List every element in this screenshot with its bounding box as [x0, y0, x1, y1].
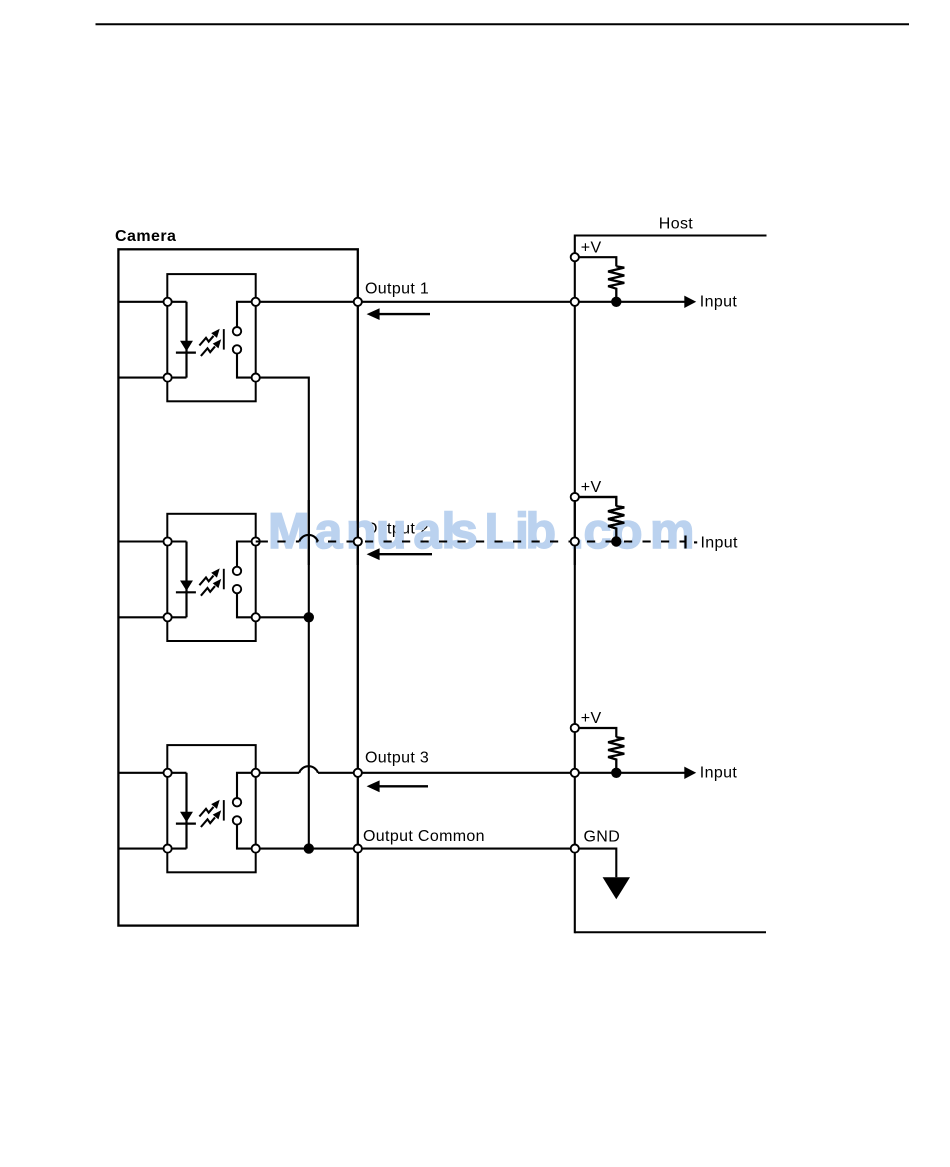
optocoupler U2 — [164, 514, 260, 641]
wire: output 3 hop to input arrow — [318, 772, 685, 774]
svg-text:Input: Input — [701, 535, 739, 552]
svg-text:Output Common: Output Common — [363, 828, 485, 845]
wire: output 3 opto3 to hop — [256, 772, 300, 774]
junction dot bus / output common — [304, 843, 314, 853]
host terminal output1 — [571, 298, 579, 306]
terminal circle camera edge output1 — [354, 298, 362, 306]
svg-text:+V: +V — [581, 239, 602, 256]
wire: camera left edge to opto1 cathode — [118, 377, 167, 379]
svg-text:+V: +V — [581, 479, 602, 496]
svg-text:Camera: Camera — [115, 228, 176, 245]
ground symbol — [603, 877, 630, 899]
output 2 dashed wire hop to end — [316, 540, 685, 542]
Camera enclosure box — [118, 249, 357, 925]
junction dot bus / opto2 — [304, 612, 314, 622]
top page rule — [96, 23, 910, 25]
host terminal output3 — [571, 769, 579, 777]
output 2 end tick — [684, 536, 686, 549]
common return bus: opto1 cathode down to output common — [256, 378, 309, 849]
+V terminal 1 — [571, 253, 579, 261]
wire: camera left edge to opto3 cathode — [118, 848, 167, 850]
wire: opto2 emitter to bus junction — [256, 616, 309, 618]
output 3 hop over bus — [299, 766, 318, 773]
+V terminal 2 — [571, 493, 579, 501]
output 2 hop over bus — [299, 535, 318, 542]
pull-up resistor R2 — [579, 497, 624, 542]
svg-text:Input: Input — [700, 293, 738, 310]
Host left edge — [574, 235, 576, 934]
wire: output 1 line opto1 to input arrow — [256, 301, 685, 303]
bus segment over watermark — [308, 500, 310, 565]
wire: camera left edge to opto2 anode — [118, 540, 167, 542]
terminal circle camera edge common — [354, 845, 362, 853]
svg-text:Host: Host — [659, 216, 694, 233]
svg-text:Output 3: Output 3 — [365, 750, 429, 767]
direction arrow output2 (left) — [367, 548, 432, 560]
input arrow 3 — [684, 767, 696, 779]
input arrow 1 — [684, 296, 696, 308]
output 2 end mini dash — [694, 541, 697, 543]
terminal circle camera edge output2 — [354, 537, 362, 545]
svg-text:Output 1: Output 1 — [365, 280, 429, 297]
Host bottom edge — [575, 931, 766, 933]
host terminal output2 — [571, 537, 579, 545]
output 2 wire redraw over watermark: opto2 to hop — [256, 540, 300, 542]
optocoupler U1 — [164, 274, 260, 401]
host terminal common / GND — [571, 845, 579, 853]
optocoupler U3 — [164, 745, 260, 872]
host line segment over watermark — [574, 500, 576, 565]
wire: camera left edge to opto3 anode — [118, 772, 167, 774]
wire: output common opto3 to host — [256, 848, 575, 850]
wire: camera left edge to opto2 cathode — [118, 616, 167, 618]
svg-text:+V: +V — [581, 710, 602, 727]
direction arrow output1 (left) — [367, 308, 430, 320]
junction dot R3 / output3 — [611, 768, 621, 778]
svg-text:GND: GND — [584, 829, 621, 846]
pull-up resistor R1 — [579, 257, 624, 302]
junction dot R1 / output1 — [611, 297, 621, 307]
terminal circle camera edge output3 — [354, 769, 362, 777]
direction arrow output3 (left) — [367, 780, 428, 792]
Host top edge — [575, 235, 767, 237]
resistor R2 redraw — [579, 497, 624, 542]
+V terminal 3 — [571, 724, 579, 732]
wire: camera left edge to opto1 anode — [118, 301, 167, 303]
pull-up resistor R3 — [579, 728, 624, 773]
junction dot R2 / output2 — [611, 536, 621, 546]
GND hookup wire — [579, 849, 616, 878]
svg-text:Input: Input — [700, 764, 738, 781]
camera right edge segment over watermark — [357, 500, 359, 565]
